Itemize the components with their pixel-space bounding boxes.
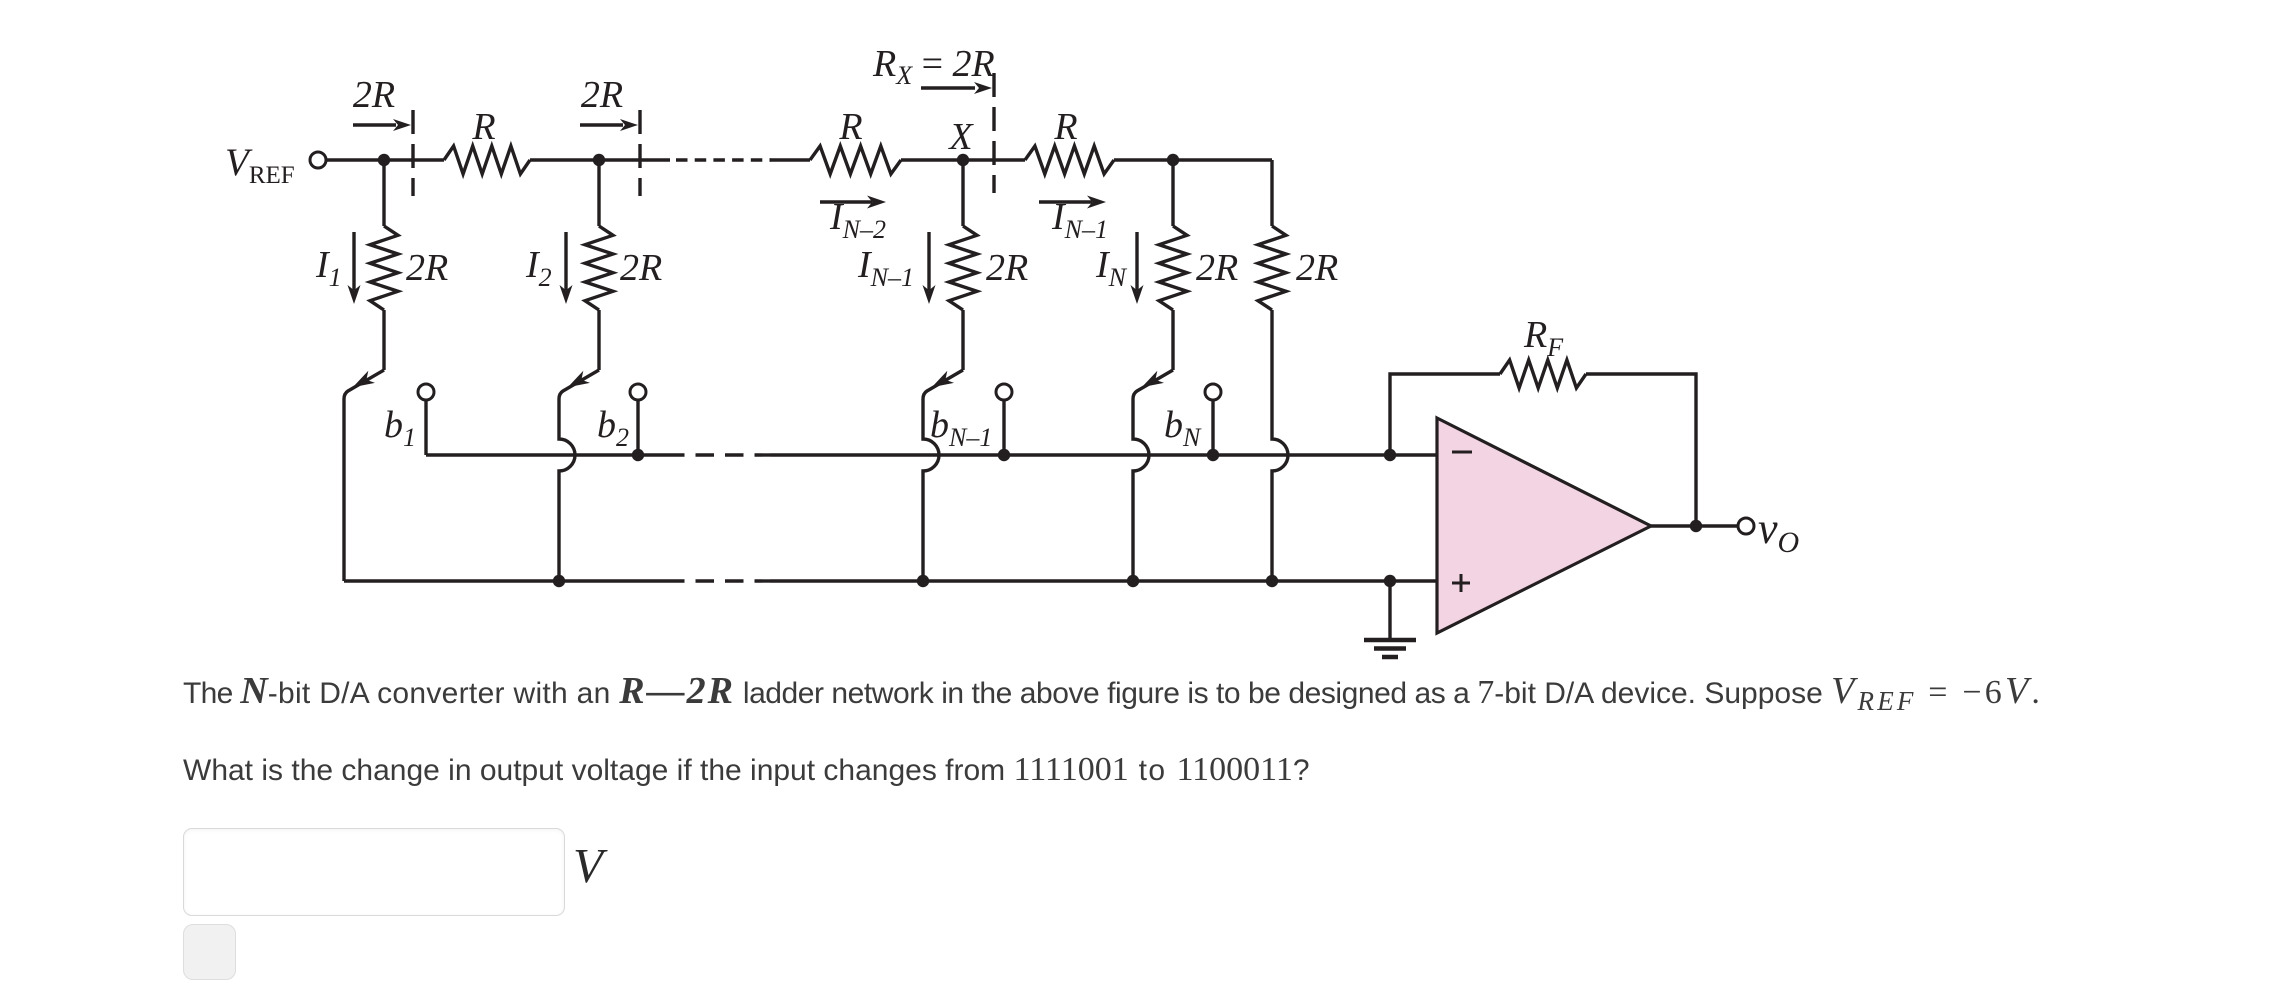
wire top rail third segment xyxy=(770,158,810,161)
current arrow IN down xyxy=(1135,232,1138,290)
ground symbol xyxy=(1364,640,1416,657)
wire resistor N to switch xyxy=(1171,310,1174,370)
wire node N down to resistor xyxy=(1171,160,1174,226)
wire to ground xyxy=(1388,581,1391,639)
answer input box xyxy=(183,828,565,916)
svg-text:bN: bN xyxy=(1164,404,1202,452)
wire upper bus right to op-amp inverting input xyxy=(770,453,1437,456)
svg-text:VREF: VREF xyxy=(225,141,295,189)
arrowhead switch 2 xyxy=(568,371,590,388)
wire rail corner down to terminating resistor xyxy=(1270,160,1273,226)
svg-text:2R: 2R xyxy=(986,247,1028,289)
question paragraph line 1 xyxy=(183,669,2043,713)
junction inverting input node xyxy=(1384,449,1396,461)
svg-text:b1: b1 xyxy=(384,404,416,452)
node 1 junction xyxy=(378,154,390,166)
svg-text:2R: 2R xyxy=(1296,247,1338,289)
dashed reference plane at first node xyxy=(411,110,414,196)
wire resistor 1 to switch xyxy=(382,310,385,370)
resistor R (series, second) xyxy=(810,146,901,174)
junction contact bN xyxy=(1207,449,1219,461)
terminal vO xyxy=(1738,518,1754,534)
wire top rail dashed continuation xyxy=(676,158,771,161)
switch arm bN-1 xyxy=(923,370,963,581)
current arrow IN-2 xyxy=(820,200,872,203)
wire lower bus right to op-amp noninverting input xyxy=(770,579,1437,582)
svg-text:b2: b2 xyxy=(597,404,629,452)
svg-text:2R: 2R xyxy=(406,247,448,289)
op-amp plus sign xyxy=(1452,574,1470,592)
current arrow I2 down xyxy=(564,232,567,290)
arrowhead switch N-1 xyxy=(932,371,954,388)
svg-text:vO: vO xyxy=(1758,504,1799,559)
resistor 2R (leg 2) xyxy=(585,226,613,310)
wire top rail right segment xyxy=(1114,158,1272,161)
op-amp minus sign xyxy=(1452,451,1472,454)
dashed reference plane at second node xyxy=(638,110,641,196)
wire feedback left vertical xyxy=(1390,374,1500,455)
junction pole bN-1 xyxy=(917,575,929,587)
contact bN circle xyxy=(1205,384,1221,400)
resistor R (series, first) xyxy=(444,146,530,174)
wire ground bus (lower) xyxy=(344,579,666,582)
svg-text:IN–1: IN–1 xyxy=(857,244,914,292)
wire virtual-ground bus (upper) xyxy=(426,453,666,456)
wire terminating resistor down with hop over bus xyxy=(1272,310,1288,581)
svg-text:R: R xyxy=(471,106,495,148)
wire node 2 down to resistor xyxy=(597,160,600,226)
junction pole bN xyxy=(1127,575,1139,587)
resistor 2R (leg N) xyxy=(1159,226,1187,310)
resistor 2R (leg N-1) xyxy=(949,226,977,310)
dashed reference plane at node X xyxy=(992,73,995,193)
wire contact b2 to bus xyxy=(636,400,639,455)
svg-text:RF: RF xyxy=(1523,314,1564,362)
junction contact bN-1 xyxy=(998,449,1010,461)
arrow 2R second xyxy=(580,123,623,126)
arrowhead switch N xyxy=(1142,371,1164,388)
wire top rail fourth segment xyxy=(901,158,1025,161)
junction noninverting input node xyxy=(1384,575,1396,587)
wire contact b1 to bus xyxy=(424,400,427,455)
junction output node xyxy=(1690,520,1702,532)
op-amp U1 xyxy=(1437,418,1651,633)
svg-text:2R: 2R xyxy=(353,74,395,116)
contact bN-1 circle xyxy=(996,384,1012,400)
resistor R (series, third) xyxy=(1025,146,1114,174)
switch arm b1 xyxy=(344,370,384,581)
wire node N-1 down to resistor xyxy=(961,160,964,226)
resistor RF xyxy=(1500,360,1586,388)
arrow 2R first xyxy=(353,123,396,126)
switch arm b2 xyxy=(559,370,599,581)
wire upper bus dashed xyxy=(666,453,770,456)
node N-1 junction xyxy=(957,154,969,166)
svg-text:R: R xyxy=(838,106,862,148)
junction terminating resistor on ground bus xyxy=(1266,575,1278,587)
svg-text:bN–1: bN–1 xyxy=(930,404,992,452)
wire top rail second segment xyxy=(530,158,670,161)
svg-text:X: X xyxy=(947,116,974,158)
arrowhead switch 1 xyxy=(353,371,375,388)
wire node 1 down to resistor xyxy=(382,160,385,226)
checkbox xyxy=(183,924,236,980)
arrow RX xyxy=(921,86,975,89)
wire resistor N-1 to switch xyxy=(961,310,964,370)
wire feedback right vertical to output xyxy=(1586,374,1696,526)
svg-text:2R: 2R xyxy=(1196,247,1238,289)
svg-text:IN: IN xyxy=(1095,244,1128,292)
svg-text:R: R xyxy=(1053,106,1077,148)
switch arm bN xyxy=(1133,370,1173,581)
resistor 2R terminating xyxy=(1258,226,1286,310)
contact b2 circle xyxy=(630,384,646,400)
wire resistor 2 to switch xyxy=(597,310,600,370)
wire contact bN-1 to bus xyxy=(1002,400,1005,455)
current arrow IN-1 (rail) xyxy=(1039,200,1092,203)
wire top rail left segment xyxy=(326,158,444,161)
svg-text:2R: 2R xyxy=(620,247,662,289)
svg-text:I2: I2 xyxy=(525,244,552,292)
terminal VREF xyxy=(310,152,326,168)
wire lower bus dashed xyxy=(666,579,770,582)
label V units xyxy=(573,837,603,894)
node 2 junction xyxy=(593,154,605,166)
junction pole b2 xyxy=(553,575,565,587)
svg-text:I1: I1 xyxy=(315,244,342,292)
node N junction xyxy=(1167,154,1179,166)
resistor 2R (leg 1) xyxy=(370,226,398,310)
current arrow IN-1 down xyxy=(927,232,930,290)
svg-text:2R: 2R xyxy=(581,74,623,116)
wire contact bN to bus xyxy=(1211,400,1214,455)
wire output xyxy=(1651,524,1738,527)
junction contact b2 xyxy=(632,449,644,461)
question paragraph line 2 xyxy=(183,751,1310,789)
current arrow I1 down xyxy=(352,232,355,290)
contact b1 circle xyxy=(418,384,434,400)
